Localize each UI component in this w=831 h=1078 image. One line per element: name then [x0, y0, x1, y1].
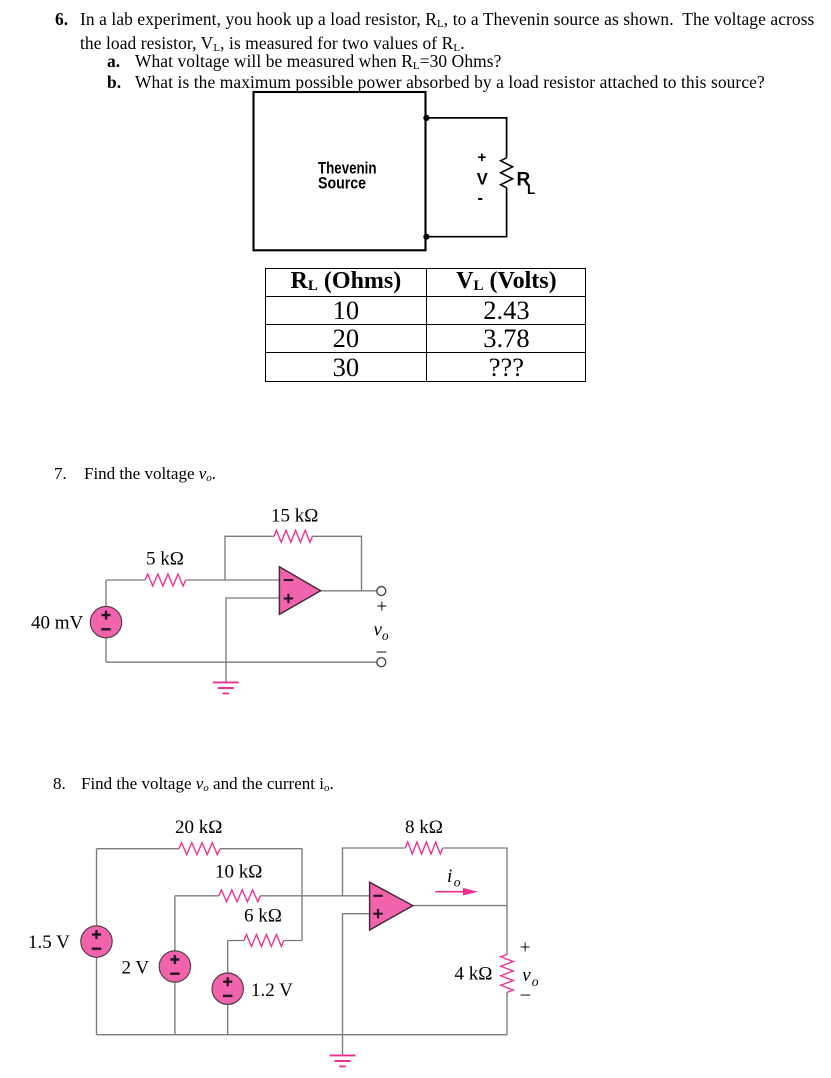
svg-text:40 mV: 40 mV — [31, 613, 84, 634]
svg-text:V: V — [477, 171, 488, 189]
svg-text:6 kΩ: 6 kΩ — [244, 906, 282, 927]
svg-text:o: o — [454, 875, 461, 890]
svg-text:10 kΩ: 10 kΩ — [215, 862, 262, 883]
svg-text:i: i — [447, 866, 452, 887]
svg-text:4 kΩ: 4 kΩ — [455, 964, 493, 985]
svg-text:20 kΩ: 20 kΩ — [175, 817, 222, 838]
svg-text:1.5 V: 1.5 V — [28, 932, 70, 953]
svg-text:5 kΩ: 5 kΩ — [146, 548, 184, 569]
svg-text:Source: Source — [318, 175, 366, 193]
svg-text:15 kΩ: 15 kΩ — [271, 505, 318, 526]
svg-text:L: L — [527, 182, 535, 197]
svg-text:+: + — [520, 938, 531, 959]
svg-text:-: - — [478, 189, 484, 207]
svg-text:+: + — [478, 149, 487, 166]
svg-text:8 kΩ: 8 kΩ — [405, 817, 443, 838]
svg-text:–: – — [376, 641, 387, 662]
svg-text:–: – — [520, 983, 531, 1004]
svg-text:+: + — [377, 597, 388, 618]
svg-text:o: o — [532, 974, 539, 989]
svg-text:2 V: 2 V — [122, 958, 150, 979]
svg-text:1.2 V: 1.2 V — [251, 980, 293, 1001]
